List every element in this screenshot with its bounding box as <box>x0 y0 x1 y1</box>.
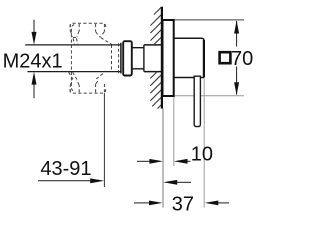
shaft middle section <box>132 48 144 69</box>
dimension M24x1: top arrow <box>33 20 35 33</box>
dimension square-70: bottom extension line <box>175 95 244 97</box>
dimension 10: right arrow <box>187 160 191 162</box>
svg-text:10: 10 <box>191 144 213 166</box>
shaft step edge <box>143 45 145 72</box>
sleeve end flange <box>120 43 122 74</box>
dimension 37: right arrow <box>218 202 230 204</box>
wall <box>161 7 163 109</box>
dimension square-70: top arrow <box>234 21 239 34</box>
extension line: escutcheon front face (gray) <box>173 97 175 166</box>
handle hub <box>174 38 204 40</box>
dimension square-70: vertical line segments <box>236 21 238 47</box>
dimension 43-91: partner arrow at wall <box>176 181 191 183</box>
dimension square-70: top extension line <box>174 19 244 21</box>
valve body left end (dashed) <box>71 25 74 92</box>
shaft outer section <box>144 45 162 72</box>
sleeve outline / M24 extension lines <box>25 44 121 46</box>
wall hatching <box>150 7 161 108</box>
dimension 10: left arrow <box>137 160 151 162</box>
dimension 43-91: line and right-pointing arrow <box>38 180 91 182</box>
hidden thread edges on sleeve (dashed) <box>111 45 113 72</box>
escutcheon (side view) <box>163 20 174 96</box>
dimension square-70: bottom arrow <box>234 82 239 95</box>
valve body top port (dashed) <box>70 23 112 44</box>
dimension 37: left arrow <box>134 202 150 204</box>
extension line: lever outer face (gray) <box>203 78 205 207</box>
svg-text:37: 37 <box>172 193 194 215</box>
valve body bottom port (dashed) <box>69 72 106 93</box>
extension line: valve body edge (43-91 left) <box>103 93 105 187</box>
svg-text:70: 70 <box>231 48 253 70</box>
collar <box>123 41 132 75</box>
handle lever <box>194 76 200 126</box>
svg-text:43-91: 43-91 <box>40 158 91 180</box>
svg-text:M24x1: M24x1 <box>3 51 63 73</box>
extension line: wall face (gray, below wall) <box>162 109 164 208</box>
label square symbol <box>220 52 231 63</box>
dimension M24x1: bottom arrow <box>33 84 35 98</box>
